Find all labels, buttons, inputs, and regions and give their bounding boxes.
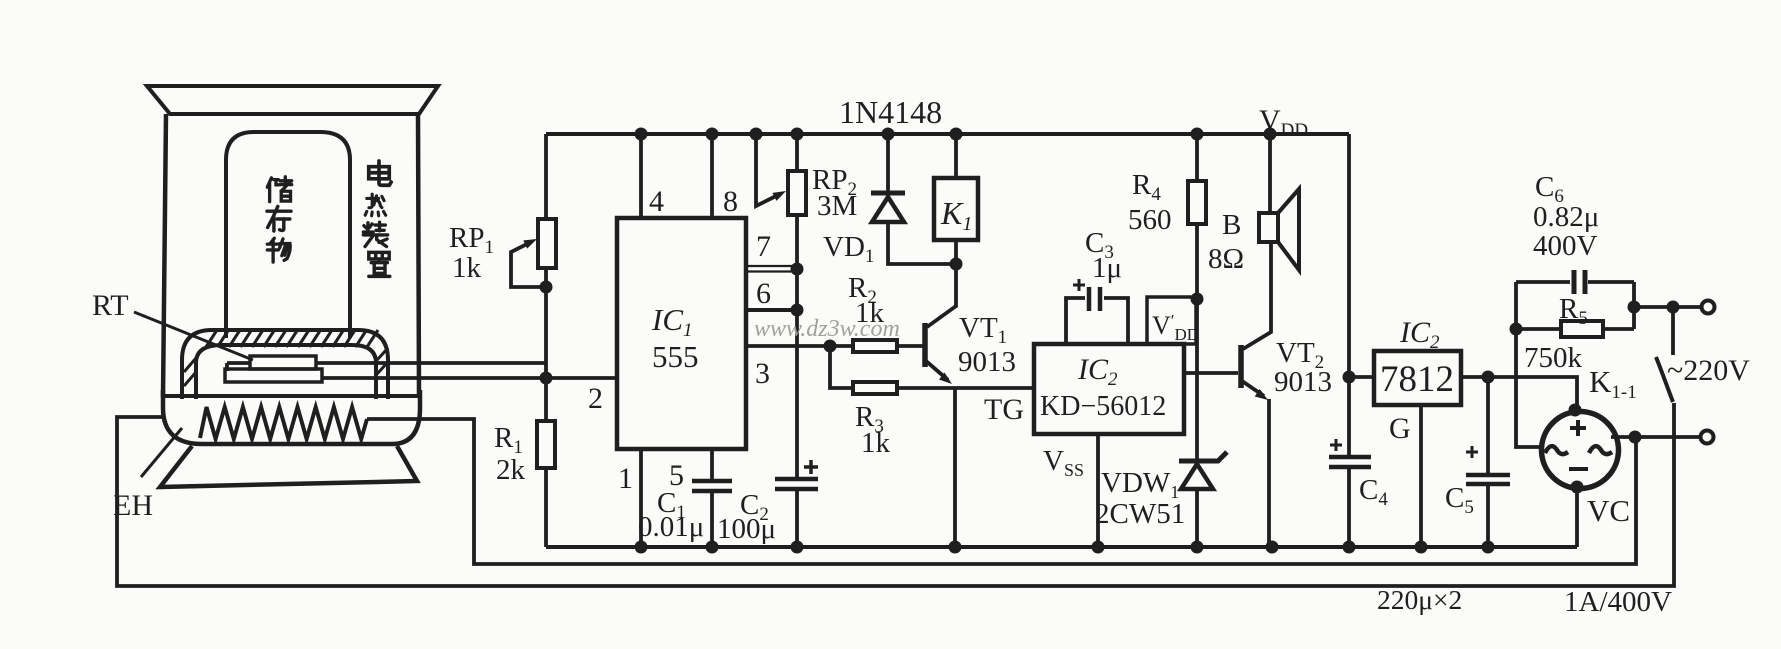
node 7812 output (1343, 371, 1356, 384)
diode VD1 (886, 134, 890, 191)
svg-text:100μ: 100μ (717, 513, 776, 545)
regulator IC2 7812 (1374, 351, 1461, 405)
svg-text:750k: 750k (1524, 342, 1583, 374)
svg-text:1N4148: 1N4148 (839, 94, 942, 130)
wire speaker to VT2 collector (1243, 242, 1271, 349)
svg-text:220μ×2: 220μ×2 (1377, 584, 1462, 615)
node pin2 / R1 junction (540, 372, 553, 385)
EH pointer line (141, 428, 182, 477)
wire ground bus (546, 545, 1577, 549)
RP2 wiper (756, 134, 780, 206)
svg-text:1k: 1k (452, 252, 482, 284)
inner storage container (226, 132, 350, 338)
sensor well hatched band outer (182, 330, 388, 399)
hatching marks (184, 330, 388, 386)
svg-text:1A/400V: 1A/400V (1564, 586, 1672, 618)
V'dd stub box (1147, 297, 1196, 344)
wire AC output bottom (1611, 435, 1700, 439)
transistor VT1 (922, 323, 928, 367)
wire K1 to VT1 collector (927, 240, 956, 327)
wire 7812 right lead to VC (1461, 377, 1577, 409)
capacitor C3 loop (1066, 298, 1128, 344)
svg-text:7: 7 (756, 230, 771, 263)
node VC right (1629, 431, 1642, 444)
pin 8 wire (710, 134, 714, 218)
RT pointer line (134, 312, 253, 360)
base stand trapezoid (160, 446, 417, 487)
wire VT1 emitter down (953, 388, 957, 547)
svg-text:VDW1: VDW1 (1101, 467, 1179, 502)
svg-text:1μ: 1μ (1092, 252, 1122, 284)
svg-text:4: 4 (649, 185, 664, 218)
resistor R1 (537, 421, 555, 468)
transistor VT2 (1238, 345, 1244, 388)
wire 7812 left lead (1349, 375, 1374, 379)
bottom shell of appliance (163, 390, 420, 444)
wire Vss to ground (1096, 434, 1100, 547)
capacitor C4 (1329, 457, 1371, 467)
node C5 top (1482, 371, 1495, 384)
capacitor C5 (1486, 377, 1490, 547)
pin 7 wire (746, 266, 797, 272)
wire AC output top (1634, 305, 1701, 309)
node pin3 junction (824, 340, 837, 353)
label 储存物 (stored material) (267, 177, 291, 202)
svg-text:2CW51: 2CW51 (1095, 498, 1185, 530)
wire VT2 emitter to ground (1267, 399, 1271, 547)
sensor well hatched band inner (196, 345, 376, 399)
node pin7 (791, 263, 804, 276)
wire VDD right vertical (1347, 134, 1351, 547)
svg-text:1k: 1k (861, 427, 891, 459)
node pin6 (791, 304, 804, 317)
svg-text:KD−56012: KD−56012 (1040, 391, 1166, 422)
zener diode VDW1 (1195, 224, 1199, 460)
pin 3 wire (746, 344, 853, 348)
resistor R4 (1195, 134, 1199, 181)
node VC top (1569, 404, 1582, 417)
svg-text:9013: 9013 (958, 346, 1016, 378)
wire snubber left vertical (1516, 282, 1543, 447)
resistor R5 (1516, 327, 1634, 331)
svg-text:~220V: ~220V (1667, 354, 1750, 387)
svg-text:www.dz3w.com: www.dz3w.com (754, 316, 900, 342)
svg-text:8: 8 (723, 185, 738, 218)
sensor holder (225, 369, 322, 382)
svg-text:1: 1 (618, 462, 633, 495)
wire RT loop (225, 363, 229, 371)
svg-text:G: G (1389, 412, 1411, 445)
svg-text:0.01μ: 0.01μ (638, 511, 704, 543)
label 电热装置 (electric heating device) (369, 161, 391, 185)
heating element EH zigzag (200, 407, 367, 439)
separator plate (163, 394, 418, 398)
pin 5 wire (710, 449, 714, 480)
wire TG line (897, 386, 1034, 390)
svg-text:560: 560 (1128, 204, 1172, 236)
capacitor C1 (692, 481, 732, 491)
wire top VDD bus (546, 132, 1349, 136)
svg-text:6: 6 (756, 277, 771, 310)
svg-text:9013: 9013 (1274, 366, 1332, 398)
node switch top (1667, 301, 1680, 314)
capacitor C2 (775, 479, 818, 489)
terminal top (1702, 301, 1715, 314)
potentiometer RP2 top wire (795, 134, 799, 171)
node VD1/K1 junction (950, 258, 963, 271)
wire pin3 down to R3 (830, 346, 853, 388)
wire RT upper lead (227, 361, 546, 365)
RP1 wiper (511, 242, 546, 287)
node R5 left (1510, 323, 1523, 336)
resistor R2 (853, 340, 897, 352)
svg-text:RT: RT (92, 289, 129, 322)
pin 1 wire (639, 449, 643, 547)
node dots ground bus (635, 541, 648, 554)
node dots top bus (635, 128, 648, 141)
svg-text:2: 2 (588, 382, 603, 415)
node RP1 wiper junction (540, 281, 553, 294)
IC2 KD-56012 box (1034, 344, 1184, 434)
svg-text:7812: 7812 (1380, 359, 1454, 400)
resistor R3 (853, 382, 897, 394)
op-amp/timer IC1 555 box (617, 218, 746, 449)
speaker B (1268, 134, 1272, 213)
wire RP2 to pins/C2 (795, 215, 799, 478)
appliance body walls (163, 114, 419, 397)
relay K1 (954, 134, 958, 178)
svg-text:B: B (1222, 209, 1241, 241)
node VC bottom (1571, 481, 1584, 494)
svg-text:8Ω: 8Ω (1208, 243, 1244, 275)
svg-text:3M: 3M (817, 190, 857, 222)
svg-text:EH: EH (113, 489, 153, 522)
wire sense line (middle bottom rail) (367, 419, 1636, 564)
node snubber output (1628, 301, 1641, 314)
wire RP1 to node 2 (544, 268, 548, 421)
svg-text:VC: VC (1587, 493, 1630, 528)
switch K1-1 (1671, 307, 1675, 355)
wire R1 to ground bus (544, 468, 548, 547)
svg-text:2k: 2k (496, 454, 526, 486)
thermistor RT sensor element (250, 356, 316, 369)
svg-text:400V: 400V (1533, 230, 1598, 262)
svg-text:555: 555 (652, 339, 699, 374)
pin 4 wire (639, 134, 643, 218)
svg-text:TG: TG (984, 393, 1024, 426)
wire 7812 ground lead (1419, 405, 1423, 547)
wire VC bottom to ground (1575, 487, 1579, 547)
svg-text:0.82μ: 0.82μ (1533, 201, 1599, 233)
capacitor C6 (1516, 280, 1634, 284)
wire RT lower lead to pin 2 (322, 376, 617, 380)
wire VDD to RP1 (544, 134, 548, 219)
wire snubber right vertical (1632, 282, 1636, 329)
terminal bottom (1701, 431, 1714, 444)
svg-text:3: 3 (755, 357, 770, 390)
heater appliance lid (147, 86, 438, 114)
pin 6 wire (746, 308, 797, 312)
potentiometer RP2 (788, 171, 806, 215)
potentiometer RP1 (538, 219, 556, 268)
node V'dd (1191, 293, 1204, 306)
wire mains line (lowest rail) (117, 403, 1674, 586)
bridge rectifier VC (1542, 412, 1619, 489)
wire R2 to VT1 base (897, 344, 923, 348)
